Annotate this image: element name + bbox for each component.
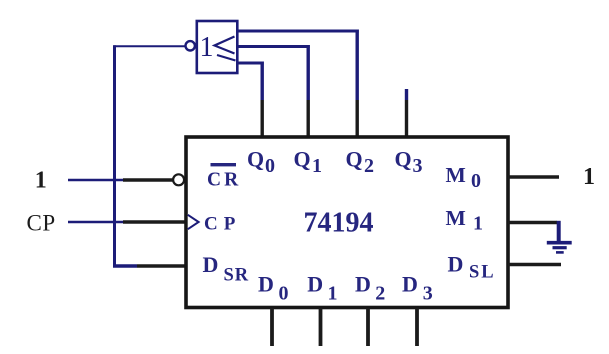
wire: gate input C horizontal (to Q0)	[238, 62, 264, 65]
svg-text:3: 3	[413, 155, 423, 177]
svg-text:D: D	[402, 272, 418, 297]
wire: Q3 stub black	[405, 100, 408, 137]
svg-text:SR: SR	[224, 266, 250, 286]
wire: gate input A horizontal (to Q2)	[238, 30, 359, 33]
wire: gate input B horizontal (to Q1)	[238, 45, 310, 48]
svg-text:D: D	[355, 272, 371, 297]
svg-text:SL: SL	[469, 263, 496, 283]
svg-text:Q: Q	[395, 147, 412, 172]
wire: CR input navy part	[68, 179, 123, 182]
wire: into D_SR (black part)	[137, 264, 186, 268]
wire: Q3 stub navy tip	[405, 89, 408, 100]
wire: gate output left segment	[114, 45, 186, 47]
svg-text:1: 1	[473, 213, 483, 235]
wire: M1 horizontal	[508, 221, 557, 224]
wire: Q1 vertical black	[307, 100, 310, 137]
svg-text:1: 1	[583, 164, 595, 190]
gate U1 (mirrored IEC OR gate body)	[197, 21, 238, 73]
wire: D_SL stub	[508, 263, 561, 266]
svg-text:CR: CR	[207, 170, 241, 191]
wire: CR input black part	[123, 178, 173, 182]
svg-text:M: M	[446, 206, 466, 230]
svg-text:D: D	[203, 252, 219, 277]
wire: Q2 vertical black	[356, 100, 359, 137]
wire: feedback vertical	[113, 45, 116, 266]
pin D1	[319, 308, 323, 346]
label Q2	[346, 147, 375, 178]
svg-text:0: 0	[471, 170, 481, 192]
ground	[547, 243, 572, 253]
wire: CP input navy part	[68, 221, 123, 224]
wire: Q2 vertical navy	[356, 30, 359, 101]
wire: Q0 vertical navy	[261, 62, 264, 101]
pin D3	[415, 308, 419, 346]
label Q1	[294, 147, 323, 178]
svg-text:2: 2	[375, 283, 385, 305]
label M1	[446, 206, 484, 235]
label M0	[446, 163, 482, 192]
svg-text:D: D	[448, 252, 464, 277]
svg-text:1: 1	[328, 283, 338, 305]
pin D2	[366, 308, 370, 346]
wire: M0 to logic 1	[508, 175, 559, 178]
svg-text:1: 1	[312, 155, 322, 177]
svg-text:CP: CP	[27, 210, 56, 235]
IC U2 74194 body	[186, 137, 508, 308]
label Q3	[395, 147, 423, 178]
label D2	[355, 272, 385, 305]
svg-text:Q: Q	[346, 147, 363, 172]
svg-text:74194: 74194	[304, 208, 374, 239]
svg-text:2: 2	[364, 155, 374, 177]
svg-text:3: 3	[423, 283, 433, 305]
wire: Q0 vertical black	[261, 100, 264, 137]
svg-text:D: D	[307, 272, 323, 297]
pin D0	[270, 308, 274, 346]
label D1	[307, 272, 337, 305]
label D_SL	[448, 252, 496, 283]
CP clock triangle	[188, 215, 199, 229]
svg-text:0: 0	[265, 155, 275, 177]
wire: M1 down to ground	[557, 221, 561, 242]
wire: CP input black part	[123, 220, 186, 224]
label Q0	[247, 147, 275, 178]
svg-text:CP: CP	[204, 214, 241, 235]
wire: into D_SR (navy part)	[113, 264, 137, 268]
CR pin inversion bubble	[173, 174, 184, 185]
label D0	[258, 272, 289, 305]
svg-text:1: 1	[35, 168, 47, 194]
svg-text:Q: Q	[294, 147, 311, 172]
svg-text:1: 1	[200, 32, 214, 63]
svg-text:D: D	[258, 272, 274, 297]
wire: Q1 vertical navy	[307, 45, 310, 100]
label D3	[402, 272, 433, 305]
label D_SR	[203, 252, 250, 286]
svg-text:Q: Q	[247, 147, 264, 172]
svg-text:0: 0	[279, 283, 289, 305]
gate U1 output bubble	[186, 41, 195, 50]
svg-text:M: M	[446, 163, 466, 187]
label CR with overline	[207, 163, 241, 191]
